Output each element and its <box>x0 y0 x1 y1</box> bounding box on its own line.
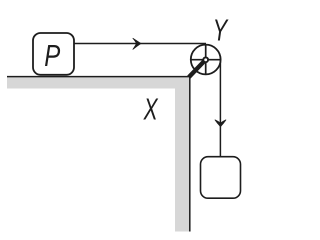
arrow on horizontal rope <box>133 38 141 49</box>
svg-text:Y: Y <box>213 13 229 48</box>
wall top outline <box>7 76 191 78</box>
wall X horizontal gray slab <box>7 77 190 88</box>
pulley crosshair horizontal spoke <box>191 59 220 61</box>
svg-text:X: X <box>143 92 159 127</box>
block P <box>33 33 74 75</box>
wall right outline <box>189 76 191 232</box>
rope vertical segment <box>219 58 221 158</box>
pulley bracket to wall corner <box>189 60 206 78</box>
pulley crosshair vertical spoke <box>205 45 207 74</box>
wall X vertical gray slab <box>175 77 190 231</box>
svg-text:P: P <box>44 38 60 73</box>
hanging block <box>201 157 241 199</box>
rope horizontal segment <box>73 43 206 45</box>
pulley hub <box>203 57 208 62</box>
pulley Y wheel <box>191 45 221 75</box>
arrow on vertical rope <box>215 120 226 127</box>
